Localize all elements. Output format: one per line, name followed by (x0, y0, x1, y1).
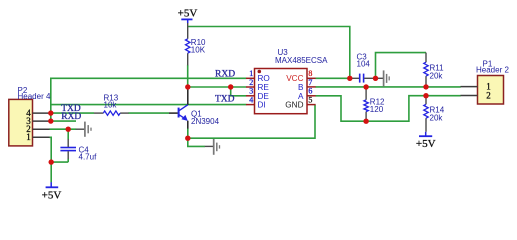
wire C4 bottom short (67, 159, 69, 162)
resistor R14 leads (425, 96, 427, 132)
IC U3 pin number 5 (308, 96, 312, 105)
power +5V bottom-left (42, 182, 62, 202)
header P2 pin number 2 (26, 124, 31, 134)
svg-text:A: A (298, 92, 304, 101)
svg-text:4.7uf: 4.7uf (79, 153, 98, 162)
svg-text:120: 120 (370, 105, 384, 114)
header P2 pin number 3 (26, 116, 31, 126)
wire B line U3 pin7 to P1 pin1 (315, 86, 460, 88)
svg-text:7: 7 (308, 78, 312, 87)
header P2 pin 1 stub (33, 136, 50, 138)
wire P2 pin4 to R13 (49, 112, 94, 114)
IC U3 pin number 2 (249, 78, 253, 87)
header P2 pin number 1 (26, 132, 31, 142)
resistor R11 labels (430, 63, 445, 80)
svg-text:8: 8 (308, 69, 312, 78)
svg-text:5: 5 (308, 96, 312, 105)
wire A line U3 pin6 jog down and to P1 pin2 (315, 96, 460, 122)
transistor Q1 base pin (169, 112, 178, 114)
IC U3 pin name VCC (286, 74, 303, 83)
resistor R13 labels (104, 93, 119, 109)
junction dot C3 left (347, 76, 352, 81)
wire U3 pin8 VCC to C3 left (315, 77, 349, 79)
net label TXD right (215, 95, 235, 105)
transistor Q1 collector diagonal (179, 105, 188, 111)
wire top +5V rail to C3 (188, 27, 350, 79)
wire RE/DE jog from collector node to U3 pins 2,3 (188, 87, 247, 96)
IC U3 pin 1 stub (246, 77, 255, 79)
header P2 pin 2 stub (33, 128, 50, 130)
junction dot +5V bottom-left node (49, 159, 54, 164)
ground G2 at Q1 emitter (205, 139, 220, 155)
svg-text:+5V: +5V (42, 190, 62, 202)
header P1 pin number 1 (486, 81, 491, 91)
resistor R11 zigzag (424, 62, 428, 76)
wire R10 bottom to Q1 collector node (187, 65, 189, 87)
svg-text:Header 4: Header 4 (18, 92, 51, 101)
IC U3 pin name RO (258, 74, 270, 83)
capacitor C3 plates (360, 74, 364, 83)
resistor R12 leads (365, 87, 367, 121)
junction dot C3 right (373, 76, 378, 81)
junction dot C4 top (66, 127, 71, 132)
IC U3 pin name A (298, 92, 304, 101)
resistor R13 zigzag (103, 111, 120, 115)
IC U3 pin name RE (258, 83, 270, 92)
wire P2 pin1 down to +5V (49, 137, 51, 182)
svg-text:3: 3 (249, 87, 253, 96)
svg-text:104: 104 (357, 59, 371, 68)
resistor R10 labels (191, 38, 206, 54)
junction dot R11 bottom B line (423, 84, 428, 89)
transistor Q1 base bar (178, 108, 180, 118)
power +5V top (178, 8, 198, 23)
svg-text:B: B (298, 83, 304, 92)
IC U3 pin 2 stub (246, 86, 255, 88)
svg-text:RXD: RXD (215, 70, 235, 80)
svg-text:2: 2 (249, 78, 253, 87)
IC U3 pin name B (298, 83, 304, 92)
svg-text:RE: RE (258, 83, 270, 92)
IC U3 pin name DI (258, 101, 266, 110)
resistor R14 labels (430, 106, 445, 123)
svg-text:1: 1 (249, 69, 253, 78)
resistor R14 zigzag (424, 104, 428, 118)
header P1 pin 1 stub (461, 86, 478, 88)
svg-text:20k: 20k (430, 71, 444, 80)
IC U3 pin 5 stub (307, 104, 316, 106)
header P2 pin 4 stub (33, 112, 50, 114)
svg-text:GND: GND (285, 101, 303, 110)
svg-text:DE: DE (258, 92, 270, 101)
junction dot R12 top (363, 84, 368, 89)
svg-text:RXD: RXD (61, 112, 81, 122)
IC U3 pin 7 stub (307, 86, 316, 88)
capacitor C3 labels (357, 53, 371, 69)
wire C4 top lead to P2 pin2 net (67, 129, 69, 139)
svg-text:6: 6 (308, 87, 312, 96)
capacitor C4 plates (60, 148, 76, 151)
header P2 box (9, 99, 33, 145)
svg-text:Header 2: Header 2 (476, 65, 509, 74)
wire emitter node down to ground G2 (188, 138, 205, 146)
IC U3 pin number 8 (308, 69, 312, 78)
IC U3 pin 8 stub (307, 77, 316, 79)
header P1 pin number 2 (486, 90, 491, 100)
IC U3 pin number 7 (308, 78, 312, 87)
ground G3 at C3 (376, 70, 390, 86)
transistor Q1 emitter pin (187, 121, 189, 129)
net label RXD right (215, 70, 235, 80)
svg-text:MAX485ECSA: MAX485ECSA (275, 56, 328, 65)
wire Q1 emitter to node (187, 128, 189, 138)
IC U3 pin name GND (285, 101, 303, 110)
svg-text:TXD: TXD (215, 95, 235, 105)
IC U3 pin 6 stub (307, 95, 316, 97)
svg-text:+5V: +5V (416, 138, 436, 150)
resistor R12 labels (370, 98, 385, 114)
net label RXD left (61, 112, 81, 122)
IC U3 pin 4 stub (246, 104, 255, 106)
svg-text:+5V: +5V (178, 8, 198, 20)
transistor Q1 emitter diagonal with arrow (179, 115, 188, 121)
resistor R13 leads (94, 112, 129, 114)
header P1 designator label (476, 60, 509, 75)
capacitor C4 labels (79, 145, 98, 161)
wire TXD horizontal from vertical column to U3 pin4 (51, 104, 247, 106)
junction dot RE/DE jog (228, 84, 233, 89)
svg-text:VCC: VCC (286, 74, 303, 83)
header P2 pin number 4 (26, 108, 31, 118)
svg-text:1: 1 (26, 132, 31, 142)
svg-text:20k: 20k (430, 113, 444, 122)
svg-text:4: 4 (249, 96, 253, 105)
wire C3 right up and over to R11 top (376, 53, 427, 79)
svg-text:2N3904: 2N3904 (191, 117, 220, 126)
IC U3 pin 3 stub (246, 95, 255, 97)
IC U3 pin number 3 (249, 87, 253, 96)
transistor Q1 collector pin (187, 87, 189, 105)
resistor R10 zigzag (186, 39, 190, 53)
wire C4 bottom to +5V column (51, 161, 68, 163)
capacitor C3 leads (351, 77, 376, 79)
junction dot Q1 collector node (185, 84, 190, 89)
junction dot P2 pin3 net (48, 118, 53, 123)
junction dot Q1 emitter node (185, 136, 190, 141)
wire U3 pin5 GND down and left to Q1 emitter node (188, 105, 315, 139)
header P2 pin 3 stub (33, 120, 50, 122)
IC U3 pin number 1 (249, 69, 253, 78)
svg-text:DI: DI (258, 101, 266, 110)
junction dot R14 top A line (423, 93, 428, 98)
transistor Q1 labels (191, 110, 220, 126)
resistor R10 leads (187, 23, 189, 65)
IC U3 pin number 4 (249, 96, 253, 105)
IC U3 pin1 indicator dot (258, 70, 262, 74)
svg-text:10k: 10k (104, 101, 118, 110)
capacitor C4 leads (67, 139, 69, 159)
wire RXD horizontal from P2 column to U3 pin1 (51, 78, 247, 121)
IC U3 pin name DE (258, 92, 270, 101)
resistor R11 leads (425, 53, 427, 87)
header P1 box (478, 76, 504, 105)
svg-text:RO: RO (258, 74, 270, 83)
junction dot R12 bottom (363, 119, 368, 124)
net label TXD left (61, 104, 81, 114)
IC U3 pin number 6 (308, 87, 312, 96)
IC U3 body (255, 69, 308, 114)
ground G1 at P2 pin2 (76, 122, 91, 137)
wire P2 pin2 to ground (49, 128, 76, 130)
svg-text:10K: 10K (191, 45, 206, 54)
resistor R12 zigzag (364, 100, 368, 112)
header P2 designator label (18, 86, 51, 101)
svg-text:2: 2 (486, 90, 491, 100)
header P1 pin 2 stub (461, 95, 478, 97)
IC U3 designator labels (275, 48, 328, 65)
wire P2 pin3 stub-end (49, 120, 76, 122)
power +5V bottom-right (416, 132, 436, 150)
junction dot P2 pin4 net (48, 110, 53, 115)
wire R13 to Q1 base (128, 112, 169, 114)
